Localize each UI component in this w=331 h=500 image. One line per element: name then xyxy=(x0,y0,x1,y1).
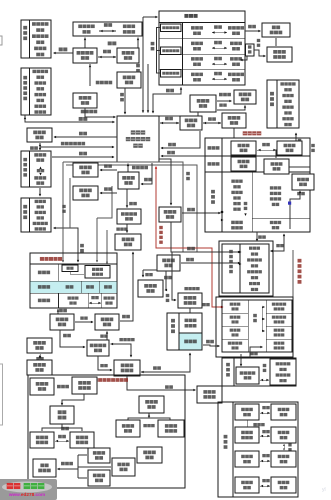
bracket 三霸 xyxy=(157,28,161,74)
cell 揭阳岭一霸 xyxy=(161,70,182,78)
box 徐宁 xyxy=(115,234,141,250)
label 表兄弟 xyxy=(253,423,257,426)
box 凌振 xyxy=(112,458,135,476)
label 旧部下 xyxy=(61,462,65,466)
row 张横/张顺 xyxy=(191,26,195,30)
table 登州派 xyxy=(218,402,298,497)
box 孔亮 xyxy=(277,141,302,155)
wire 卢俊义-史文恭 活捉 xyxy=(141,353,190,372)
label 点拨 vertical xyxy=(311,144,315,147)
row 乐和孙立 xyxy=(235,451,259,467)
wire 焦挺-夫妻线 x70 xyxy=(69,178,71,228)
row 祝家庄 cyan xyxy=(30,281,116,293)
frame line F1 xyxy=(63,162,183,252)
wire 郭盛 bottom xyxy=(217,106,245,111)
box 朱仝 xyxy=(180,116,202,130)
box 雷横 xyxy=(222,113,246,128)
column 杨志武松 xyxy=(231,180,235,183)
wire 揭阳-宋江 结拜 via x153 xyxy=(153,88,181,114)
table 七星 xyxy=(222,300,292,352)
wire 王英-扈三娘 夫妻 xyxy=(54,228,78,262)
wire 李逵-鲍旭 结拜 xyxy=(100,192,117,194)
table 芒砀山 xyxy=(222,358,296,386)
wire 宋江-李逵 结拜 xyxy=(141,163,152,184)
box 韩滔 xyxy=(88,448,110,463)
wire 索超-杨志 同僚 xyxy=(297,192,301,195)
label 结拜 vertical in 二龙山 xyxy=(244,202,248,205)
cell 白虎山 xyxy=(208,146,212,150)
box 蔡庆 xyxy=(27,360,52,375)
wire 宋江-揭阳 vertical x143 xyxy=(142,17,144,113)
column 孙二娘张青曹正 xyxy=(252,217,310,219)
cell 二龙山 xyxy=(211,190,215,194)
box 周通 xyxy=(231,157,256,171)
box 卢俊义 xyxy=(114,360,140,376)
box 宣赞 xyxy=(30,378,54,395)
wire 时迁-石秀 xyxy=(106,332,108,341)
box 李逵 xyxy=(118,172,139,189)
box 戴宗 xyxy=(73,48,97,63)
wire 吕方-宋江 xyxy=(154,112,198,116)
wire 薛永-王定六 xyxy=(241,57,248,61)
box 焦挺 xyxy=(73,163,98,177)
box 扈三娘 xyxy=(85,266,110,279)
label 结拜 vertical near x140 xyxy=(136,64,140,68)
box 朱富 xyxy=(157,255,180,271)
group 黄门山四杰 xyxy=(21,68,51,115)
blue junction dot xyxy=(288,202,291,205)
wire 戴宗-饮马川 结拜 xyxy=(54,52,73,54)
box 王定六 xyxy=(267,47,292,62)
label 结拜 vertical corridor xyxy=(186,172,190,175)
left-edge clipped box fragment middle xyxy=(0,364,3,425)
box 段景住 xyxy=(178,293,202,308)
label 同事 xyxy=(58,435,62,439)
cell 史文恭 cyan xyxy=(179,333,202,350)
wire 李逵-汤隆 结拜 xyxy=(126,190,128,208)
wire 宋江-花荣 结交 xyxy=(54,136,117,138)
wire to 扈三娘 x107 xyxy=(106,230,108,264)
wire 时迁-徐宁 盗甲 xyxy=(122,315,126,319)
svg-text:yl: yl xyxy=(322,487,326,493)
box 蔡福 xyxy=(27,338,52,353)
wire 宋清-宋江 兄弟 xyxy=(124,88,126,114)
wire 公孙胜-樊瑞 师徒 xyxy=(250,347,262,358)
wire 结拜 戴宗-萧让 xyxy=(84,38,86,49)
box 皇甫端 xyxy=(197,386,222,403)
group 少华山 朱武陈达杨春史进 xyxy=(267,80,299,128)
wire -段景住 xyxy=(172,252,176,300)
wire into 揭阳镇 table from left xyxy=(143,16,157,18)
small box 痛打 xyxy=(246,44,255,56)
box 龚旺 xyxy=(116,420,140,437)
frame line F2 xyxy=(66,165,197,252)
wire 关胜-单廷珪魏定国 xyxy=(42,424,82,431)
box 鲍旭 xyxy=(73,186,98,200)
wire 黄门山-宋江 结拜 xyxy=(25,115,114,122)
wire 郝思文-关胜 xyxy=(62,394,84,405)
wire 石秀-卢俊义 生死之交 xyxy=(111,344,132,357)
box 安道全 xyxy=(262,23,290,37)
box 丁得孙 xyxy=(158,420,184,437)
frame 梁山元老 outer xyxy=(219,241,273,296)
wire 张顺-安道全 救过 xyxy=(248,25,252,29)
box 汤隆 xyxy=(117,209,141,224)
wire 朱富-朱贵 兄弟 xyxy=(181,262,240,264)
group 青州降将 秦明黄信 xyxy=(21,151,51,187)
wire 李云 归顺 xyxy=(143,270,157,277)
red vertical label xyxy=(159,226,163,229)
wire 史文恭-晁盖 射杀 xyxy=(203,345,219,346)
group 饮马川 (裴宣邓飞孟康) xyxy=(21,20,51,58)
title 三山聚义 xyxy=(243,131,247,135)
cell 项充李衮 xyxy=(270,359,296,385)
table 曾头市 xyxy=(167,313,202,350)
box 石秀 xyxy=(87,340,109,356)
wire 李逵-宋江 死心塌地 xyxy=(127,164,129,172)
box 石勇 xyxy=(73,93,97,108)
label 结拜 vertical xyxy=(263,364,267,367)
box 扈成 xyxy=(62,265,78,272)
row 扈家庄 xyxy=(30,280,117,282)
left-edge clipped box fragment top xyxy=(0,36,2,45)
wire 归顺 into 元老 xyxy=(256,232,258,241)
box 单廷珪 xyxy=(30,432,54,448)
wire 花荣-秦明 妹夫 xyxy=(30,146,34,150)
wire 杨雄-石秀 结拜 xyxy=(60,330,85,347)
wire 戴宗-李逵 生死之交 xyxy=(89,64,91,86)
wire 柴进-元老 恩惠 xyxy=(171,222,240,252)
wire 卢俊义-皇甫端 举荐 xyxy=(127,376,195,390)
frame 三山聚义 xyxy=(205,138,310,232)
wire 杨雄-祝家庄 甥舅 xyxy=(57,309,59,314)
cell 鲁智深 xyxy=(231,221,235,224)
title 三庄联盟 xyxy=(40,257,44,261)
label 结拜 vertical xyxy=(151,42,155,46)
row 邹渊邹润 xyxy=(235,477,259,493)
box 杨雄 xyxy=(50,314,74,330)
table 梁山元老 inner xyxy=(222,244,269,293)
wire 李逵-焦挺 结拜 xyxy=(100,169,117,171)
label 旧部下 xyxy=(143,424,147,427)
wire 朱仝-雷横 同事 xyxy=(203,122,221,124)
wire -宋江 恩惠 xyxy=(161,155,205,157)
frame 朝廷降将 xyxy=(28,375,185,488)
title 智取生辰纲 vertical xyxy=(298,259,302,263)
title 朝廷降将 xyxy=(85,378,89,382)
row 解珍解宝 xyxy=(235,404,259,420)
label 旧部 xyxy=(61,427,65,431)
box 花荣 xyxy=(27,128,52,142)
table 揭阳镇三霸 xyxy=(159,11,245,85)
label 旧识 vertical xyxy=(62,205,65,208)
wire 杨雄-时迁 xyxy=(75,321,93,323)
box 杨林 xyxy=(117,48,139,63)
wire 呼延灼-韩滔彭玘 bracket xyxy=(58,455,112,478)
wire 段景住-曾头市 xyxy=(189,308,191,313)
watermark 电骡学习网 bottom left xyxy=(0,479,57,500)
cell 浔阳江一霸 xyxy=(161,47,182,55)
box 关胜 xyxy=(50,406,74,424)
wire 吕方-郭盛 xyxy=(217,100,231,102)
wire 张清 bracket 龚旺丁得孙 xyxy=(128,414,170,421)
wire 宋江 second vertical x148 xyxy=(147,64,149,113)
row 李俊/李立 xyxy=(191,73,195,77)
label 结拜 vertical near 王定六 xyxy=(257,39,260,42)
box 李云 xyxy=(138,280,163,297)
wire 蔡福-蔡庆 兄弟 xyxy=(36,357,40,360)
box 萧让/金大坚 同乡 xyxy=(73,22,142,36)
box 李忠 xyxy=(264,159,289,174)
box 吕方 xyxy=(190,95,216,112)
box 宋清 xyxy=(117,72,141,88)
box 郝思文 xyxy=(72,377,97,394)
box 彭玘 xyxy=(88,470,110,486)
frame 七星聚义 xyxy=(292,250,294,297)
box 董平 xyxy=(137,447,162,463)
group 清风山 燕顺王英郑天寿 xyxy=(21,198,51,232)
wire 宋江-朱仝 结拜 xyxy=(160,122,179,124)
wire 李忠-史进 启蒙 xyxy=(276,133,296,158)
box 魏定国 xyxy=(70,432,94,448)
box 张清 xyxy=(139,396,164,413)
wire 汤隆-徐宁 表兄弟 xyxy=(126,225,128,233)
label 同窗 xyxy=(202,303,206,306)
wire 青州-宋江 结拜 xyxy=(52,156,114,158)
cell 桃花山 xyxy=(208,162,212,166)
red wire 吴用-宋江 xyxy=(156,167,223,307)
wire 秦明-宋江 闻讯使其归顺 xyxy=(40,146,114,148)
wire 李忠 right xyxy=(289,166,310,168)
wire 安道全-王定六 xyxy=(275,38,277,46)
cell 揭阳镇一霸 xyxy=(161,24,182,32)
wire 朱富-李云 师徒 xyxy=(165,271,166,290)
wire 秦明-清风山 xyxy=(39,188,41,196)
wire 雷横-三山 frame xyxy=(233,129,235,138)
row 侯健/薛永 xyxy=(191,42,195,46)
box 郭盛 xyxy=(234,90,256,104)
wire -宋江 搭救 xyxy=(161,131,200,148)
label 夫妻 vertical xyxy=(288,443,291,446)
wire 石秀-卢俊义 相救 xyxy=(98,356,112,370)
row 童威/童猛 xyxy=(191,57,195,61)
label 对影山 xyxy=(219,93,223,97)
box 宋江 central xyxy=(117,116,159,162)
box 孔明 xyxy=(231,141,256,155)
box 柴进 xyxy=(159,207,181,222)
table 三庄联盟 xyxy=(30,253,117,308)
wire 柴进-二龙山 恩惠 xyxy=(182,212,220,214)
box 呼延灼 xyxy=(33,459,56,477)
label 兄弟 vertical bracket xyxy=(253,314,257,317)
svg-text:www.ed278.com: www.ed278.com xyxy=(8,492,45,497)
row 顾大嫂孙新 xyxy=(235,427,259,443)
label 旧部下 xyxy=(57,385,61,389)
wire 曹正-林冲 师徒 xyxy=(271,234,285,251)
wire 石勇-宋江 慕名相寻 xyxy=(81,110,85,114)
box 时迁 xyxy=(95,314,119,330)
box 索超 xyxy=(292,174,314,190)
arrows into 元老 xyxy=(239,251,242,253)
wire 宋江-柴进 xyxy=(159,159,171,205)
box 樊瑞 xyxy=(236,367,259,384)
row 李家庄 xyxy=(38,299,42,303)
wire to 祝家庄 x97 xyxy=(97,186,112,262)
wire 戴宗-杨林 结拜 xyxy=(98,56,116,58)
